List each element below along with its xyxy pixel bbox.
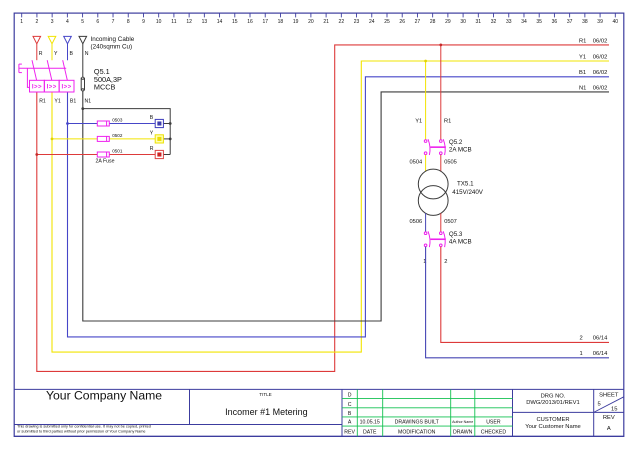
svg-text:TITLE: TITLE [259,392,272,397]
svg-text:CHECKED: CHECKED [481,430,507,436]
svg-text:415V/240V: 415V/240V [452,189,483,196]
svg-text:B: B [70,51,74,57]
svg-text:MODIFICATION: MODIFICATION [398,430,436,436]
svg-text:B: B [348,411,352,417]
svg-text:DWG/2013/01/REV1: DWG/2013/01/REV1 [526,400,580,406]
svg-text:28: 28 [430,19,436,25]
svg-text:3: 3 [51,19,54,25]
svg-text:Incomer #1 Metering: Incomer #1 Metering [225,407,308,417]
svg-text:DRAWINGS BUILT: DRAWINGS BUILT [395,419,440,425]
svg-text:This drawing is submitted only: This drawing is submitted only for confi… [17,425,151,429]
svg-text:1: 1 [580,351,583,357]
svg-text:USER: USER [486,419,501,425]
svg-text:06/14: 06/14 [593,336,608,342]
svg-text:or submitted to third parties: or submitted to third parties without pr… [17,430,146,434]
svg-text:06/14: 06/14 [593,351,608,357]
svg-text:N1: N1 [579,85,586,91]
svg-text:34: 34 [521,19,527,25]
svg-text:C: C [348,402,352,408]
svg-text:N1: N1 [85,98,92,104]
svg-text:I>>: I>> [47,83,57,90]
svg-text:10: 10 [156,19,162,25]
svg-text:26: 26 [399,19,405,25]
svg-text:12: 12 [186,19,192,25]
svg-text:I>>: I>> [32,83,42,90]
svg-text:8: 8 [127,19,130,25]
svg-text:Y: Y [150,130,154,136]
svg-text:0504: 0504 [410,160,423,166]
svg-text:11: 11 [171,19,176,25]
svg-text:MCCB: MCCB [94,82,116,91]
svg-text:18: 18 [278,19,284,25]
svg-text:21: 21 [323,19,329,25]
svg-text:DRAWN: DRAWN [453,430,473,436]
svg-text:0507: 0507 [444,219,457,225]
svg-text:Your Company Name: Your Company Name [46,389,162,403]
svg-text:0505: 0505 [444,160,457,166]
svg-text:REV: REV [344,430,355,436]
svg-text:6: 6 [96,19,99,25]
svg-text:B1: B1 [70,98,76,104]
svg-text:32: 32 [491,19,497,25]
svg-text:5: 5 [81,19,84,25]
svg-text:R: R [150,146,154,152]
svg-text:DATE: DATE [363,430,377,436]
svg-text:24: 24 [369,19,375,25]
svg-text:37: 37 [567,19,573,25]
svg-text:0502: 0502 [112,133,123,138]
svg-text:0503: 0503 [112,118,123,123]
svg-text:23: 23 [354,19,360,25]
svg-text:Your Customer Name: Your Customer Name [525,424,581,430]
svg-text:0501: 0501 [112,149,123,154]
svg-text:R1: R1 [39,98,46,104]
svg-text:5: 5 [598,402,601,408]
svg-text:16: 16 [247,19,253,25]
svg-text:2A MCB: 2A MCB [449,147,472,154]
svg-text:Y1: Y1 [579,54,586,60]
svg-text:39: 39 [597,19,603,25]
svg-text:TX5.1: TX5.1 [457,181,474,188]
svg-text:Q5.2: Q5.2 [449,139,463,146]
svg-text:7: 7 [112,19,115,25]
svg-text:9: 9 [142,19,145,25]
svg-text:19: 19 [293,19,299,25]
svg-text:0506: 0506 [410,219,423,225]
svg-text:25: 25 [384,19,390,25]
svg-text:1: 1 [20,19,23,25]
svg-text:10.05.15: 10.05.15 [360,419,380,425]
svg-text:DRG NO.: DRG NO. [541,393,566,399]
svg-text:35: 35 [536,19,542,25]
svg-text:36: 36 [552,19,558,25]
svg-text:29: 29 [445,19,451,25]
svg-text:Author Name: Author Name [452,420,473,424]
svg-text:30: 30 [460,19,466,25]
svg-text:2: 2 [580,336,583,342]
svg-text:N: N [85,51,89,57]
svg-text:REV: REV [603,415,615,421]
svg-text:06/02: 06/02 [593,85,608,91]
svg-text:R1: R1 [579,38,586,44]
svg-text:R1: R1 [444,118,451,124]
svg-text:Y: Y [54,51,58,57]
svg-text:13: 13 [202,19,208,25]
svg-text:40: 40 [613,19,619,25]
svg-text:06/02: 06/02 [593,54,608,60]
svg-text:B1: B1 [579,70,586,76]
svg-text:14: 14 [217,19,223,25]
svg-text:Y1: Y1 [54,98,60,104]
svg-text:CUSTOMER: CUSTOMER [536,417,569,423]
svg-text:B: B [150,115,154,121]
svg-text:2A Fuse: 2A Fuse [96,158,115,164]
svg-text:17: 17 [262,19,268,25]
svg-text:Incoming Cable: Incoming Cable [91,36,135,43]
svg-text:I>>: I>> [61,83,71,90]
svg-text:Y1: Y1 [415,118,422,124]
svg-text:SHEET: SHEET [599,393,619,399]
svg-text:06/02: 06/02 [593,38,608,44]
svg-text:4A MCB: 4A MCB [449,239,472,246]
svg-text:R: R [39,51,43,57]
svg-text:15: 15 [232,19,238,25]
svg-text:4: 4 [66,19,69,25]
svg-text:(240sqmm Cu): (240sqmm Cu) [91,43,133,50]
svg-text:33: 33 [506,19,512,25]
svg-text:A: A [348,420,352,426]
svg-text:15: 15 [611,407,617,413]
svg-text:06/02: 06/02 [593,70,608,76]
svg-text:38: 38 [582,19,588,25]
svg-text:31: 31 [476,19,482,25]
svg-text:A: A [607,426,611,432]
svg-text:22: 22 [339,19,345,25]
svg-text:27: 27 [415,19,421,25]
svg-text:20: 20 [308,19,314,25]
svg-text:2: 2 [36,19,39,25]
svg-text:2: 2 [444,259,447,265]
svg-text:D: D [348,393,352,399]
svg-text:Q5.3: Q5.3 [449,231,463,238]
